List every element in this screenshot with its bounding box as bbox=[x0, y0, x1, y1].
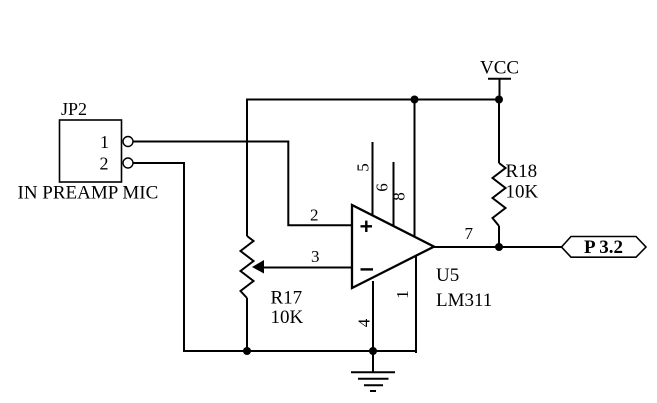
resistor R18 zigzag bbox=[493, 163, 506, 226]
svg-text:3: 3 bbox=[311, 247, 320, 266]
wire R18 bottom to output bbox=[498, 226, 500, 247]
junction top rail / pin 8 bbox=[411, 96, 419, 104]
resistor R17 zigzag bbox=[241, 236, 254, 298]
U5 minus sign bbox=[361, 268, 374, 270]
svg-text:1: 1 bbox=[393, 290, 412, 299]
op-amp U5 triangle bbox=[352, 205, 434, 288]
wire R17 wiper to U5 pin3 (-IN) bbox=[262, 267, 352, 269]
svg-text:VCC: VCC bbox=[480, 58, 519, 79]
U5 pin 4 stub to ground rail bbox=[372, 281, 374, 351]
svg-text:R17: R17 bbox=[271, 288, 303, 309]
U5 pin 1 stub to ground rail bbox=[415, 256, 416, 352]
U5 plus sign bbox=[361, 221, 373, 232]
U5 pin 6 stub bbox=[393, 162, 395, 226]
junction R17 / ground rail bbox=[243, 347, 251, 355]
svg-text:7: 7 bbox=[465, 224, 474, 243]
svg-text:4: 4 bbox=[355, 318, 374, 327]
svg-text:2: 2 bbox=[100, 154, 109, 174]
svg-text:10K: 10K bbox=[271, 307, 304, 328]
svg-text:U5: U5 bbox=[436, 265, 459, 286]
svg-text:8: 8 bbox=[390, 192, 409, 201]
U5 pin 8 stub from VCC rail bbox=[414, 100, 416, 238]
svg-text:P 3.2: P 3.2 bbox=[584, 237, 623, 258]
JP2 pin 1 circle bbox=[123, 137, 133, 147]
U5 pin 5 stub bbox=[372, 142, 374, 216]
junction output / R18 bbox=[495, 243, 503, 251]
svg-text:LM311: LM311 bbox=[436, 290, 492, 311]
svg-text:2: 2 bbox=[310, 206, 319, 225]
wire JP2 pin1 to U5 pin2 (+IN) bbox=[133, 142, 352, 226]
JP2 pin 2 circle bbox=[123, 158, 133, 168]
wire JP2 pin2 down to ground rail bbox=[133, 163, 184, 352]
wire top rail left end down to R17 bbox=[246, 99, 248, 237]
R17 wiper arrow bbox=[252, 260, 264, 274]
svg-text:IN PREAMP MIC: IN PREAMP MIC bbox=[18, 183, 159, 204]
junction top rail / VCC / R18 bbox=[495, 96, 503, 104]
junction ground rail / pin 4 / ground symbol bbox=[369, 347, 377, 355]
svg-text:6: 6 bbox=[373, 183, 392, 192]
svg-text:10K: 10K bbox=[506, 182, 539, 203]
wire VCC rail down to R18 bbox=[498, 100, 500, 164]
connector JP2 body bbox=[60, 120, 122, 182]
ground symbol bbox=[351, 351, 395, 391]
VCC symbol bbox=[480, 58, 519, 100]
svg-text:JP2: JP2 bbox=[61, 99, 87, 119]
wire R17 bottom to ground rail bbox=[246, 298, 248, 351]
net flag P 3.2 outline bbox=[562, 237, 647, 258]
wire U5 output pin 7 bbox=[434, 246, 562, 248]
wire top VCC rail bbox=[246, 99, 499, 101]
svg-text:R18: R18 bbox=[506, 161, 538, 182]
svg-text:5: 5 bbox=[354, 163, 373, 172]
wire bottom ground rail bbox=[183, 350, 416, 352]
svg-text:1: 1 bbox=[100, 132, 109, 152]
